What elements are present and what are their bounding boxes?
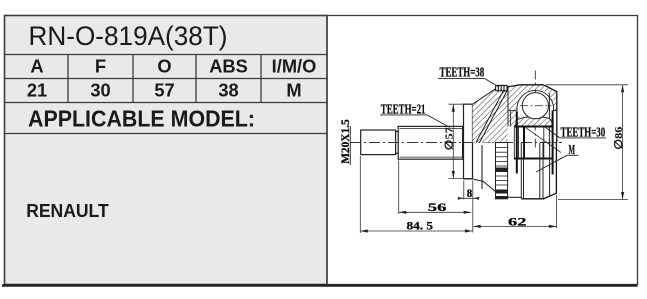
svg-text:APPLICABLE MODEL:: APPLICABLE MODEL: [28, 106, 255, 132]
dim 62 [473, 225, 556, 227]
svg-text:TEETH=30: TEETH=30 [561, 126, 606, 141]
svg-text:∅57: ∅57 [444, 127, 456, 151]
dia57 [452, 104, 455, 112]
svg-text:30: 30 [90, 79, 110, 100]
web hatched (upper) [473, 87, 508, 143]
labels with leaders [381, 66, 605, 158]
dim 8 line [459, 197, 478, 199]
extension lines [359, 156, 361, 233]
shaft profile [361, 104, 473, 179]
drawing panel background [327, 16, 638, 285]
rim inner line [548, 93, 550, 142]
bore verticals [514, 111, 552, 175]
dia86 [621, 85, 624, 93]
dia57 dim [452, 104, 454, 178]
lower web (external view) [464, 143, 496, 192]
neck step [396, 131, 399, 133]
table panel background [5, 16, 328, 285]
bore thick lines [514, 126, 554, 128]
centerline horizontal (shaft axis) [350, 142, 562, 144]
value row [27, 79, 302, 100]
inner race hatched (upper) [515, 117, 554, 127]
svg-text:8: 8 [467, 187, 473, 200]
arrowheads [360, 85, 624, 233]
centerlines [350, 71, 562, 151]
thick bottom border [2, 284, 638, 286]
dia86 dim [622, 85, 624, 200]
56 [399, 211, 407, 214]
dim 56 [399, 211, 472, 213]
spline section TEETH=21 [398, 126, 462, 159]
svg-text:21: 21 [27, 79, 47, 100]
84.5 [360, 229, 368, 232]
header row [30, 55, 316, 76]
flange disc Ø57 [464, 104, 473, 179]
svg-text:ABS: ABS [209, 55, 248, 76]
8 (outside) [458, 197, 464, 200]
ABS ring slats (lower) [496, 143, 508, 199]
threaded stub M20X1.5 [361, 130, 396, 155]
leader crossing bore [524, 127, 561, 153]
svg-text:RENAULT: RENAULT [26, 201, 109, 221]
svg-text:∅86: ∅86 [613, 126, 625, 150]
svg-text:62: 62 [508, 216, 527, 229]
svg-text:RN-O-819A(38T): RN-O-819A(38T) [29, 21, 228, 51]
62 [473, 225, 481, 228]
ball horizontal centerline [520, 105, 552, 107]
bell upper half: hatched body with circular cavity [508, 85, 557, 143]
cavity track arc [517, 90, 554, 110]
svg-text:38: 38 [218, 79, 238, 100]
svg-text:M: M [286, 79, 301, 100]
ball [522, 93, 548, 119]
svg-text:I/M/O: I/M/O [272, 55, 317, 76]
svg-text:56: 56 [428, 201, 447, 214]
bell lower half [508, 143, 557, 199]
bell outline upper [508, 85, 544, 87]
svg-text:O: O [157, 55, 171, 76]
dimension value texts [407, 187, 527, 232]
svg-text:A: A [30, 55, 43, 76]
svg-text:57: 57 [154, 79, 174, 100]
dim 84.5 [360, 230, 472, 232]
svg-text:F: F [95, 55, 106, 76]
ABS tooth block (upper) [496, 85, 507, 90]
centerline vertical (ball axis) [534, 71, 536, 151]
svg-text:84. 5: 84. 5 [407, 219, 434, 232]
